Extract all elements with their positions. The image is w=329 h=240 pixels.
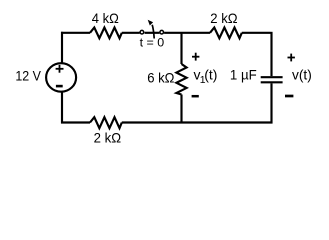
svg-text:2 kΩ: 2 kΩ: [94, 130, 122, 146]
svg-text:(t): (t): [204, 67, 217, 83]
svg-text:2 kΩ: 2 kΩ: [210, 10, 237, 26]
svg-text:1 µF: 1 µF: [230, 67, 257, 83]
svg-text:12 V: 12 V: [15, 68, 41, 84]
svg-text:6 kΩ: 6 kΩ: [147, 69, 174, 85]
svg-text:v(t): v(t): [292, 67, 312, 83]
svg-text:t = 0: t = 0: [140, 36, 165, 50]
svg-text:4 kΩ: 4 kΩ: [92, 10, 119, 26]
